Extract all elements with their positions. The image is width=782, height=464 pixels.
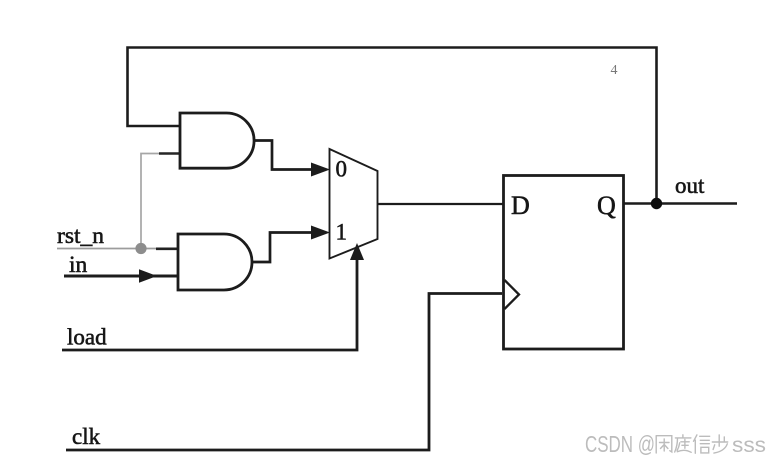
svg-text:in: in bbox=[69, 252, 88, 278]
svg-text:CSDN @: CSDN @ bbox=[585, 431, 655, 457]
svg-text:0: 0 bbox=[336, 157, 348, 182]
svg-text:clk: clk bbox=[72, 424, 101, 449]
svg-text:4: 4 bbox=[611, 63, 618, 78]
svg-text:out: out bbox=[675, 173, 705, 198]
svg-text:Q: Q bbox=[597, 191, 616, 220]
svg-text:rst_n: rst_n bbox=[57, 223, 104, 249]
svg-text:1: 1 bbox=[336, 220, 348, 245]
svg-text:D: D bbox=[511, 191, 530, 220]
svg-text:load: load bbox=[67, 325, 107, 350]
svg-text:sss: sss bbox=[732, 434, 766, 457]
